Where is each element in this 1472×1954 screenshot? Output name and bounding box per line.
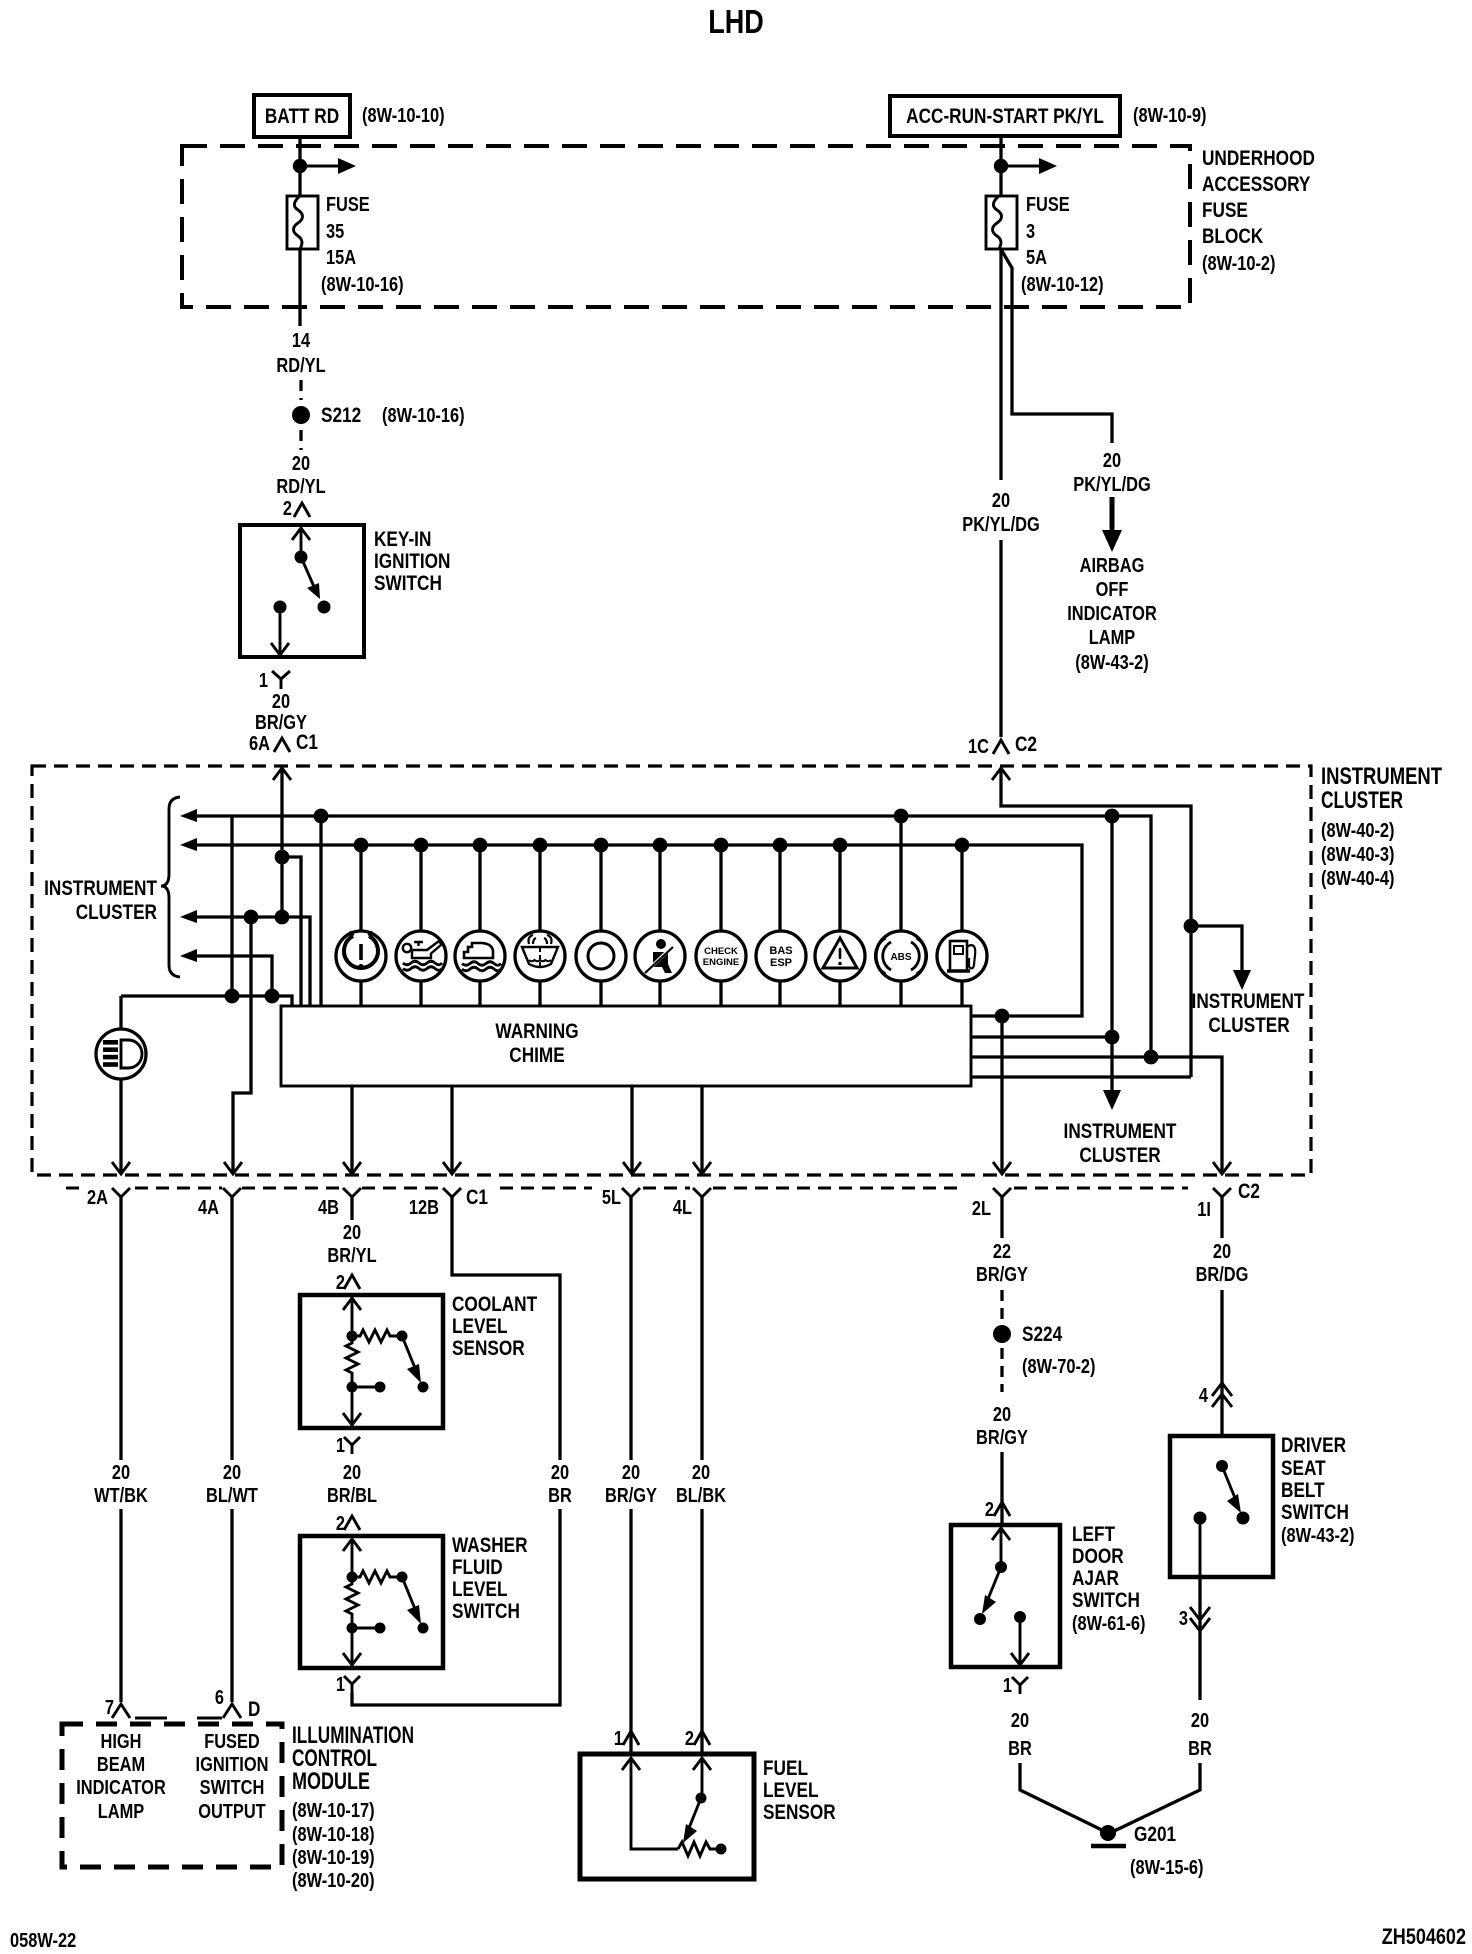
svg-text:BATT RD: BATT RD <box>265 105 339 128</box>
svg-text:CHIME: CHIME <box>509 1044 565 1067</box>
svg-text:INDICATOR: INDICATOR <box>1067 603 1157 625</box>
svg-text:FUEL: FUEL <box>763 1757 808 1780</box>
svg-text:5L: 5L <box>602 1187 621 1209</box>
label G201 (8W-15-6) <box>1130 1823 1204 1879</box>
svg-text:UNDERHOOD: UNDERHOOD <box>1202 147 1315 170</box>
ground G201 <box>1091 1825 1126 1846</box>
svg-text:FUSE: FUSE <box>326 194 370 216</box>
coolant sensor internals <box>343 1298 429 1425</box>
svg-text:SWITCH: SWITCH <box>1281 1501 1349 1524</box>
svg-text:1I: 1I <box>1197 1199 1211 1221</box>
label AIRBAG OFF INDICATOR LAMP (8W-43-2) <box>1067 555 1157 674</box>
block: underhood accessory fuse block (dashed) <box>182 146 1190 307</box>
label INSTRUMENT CLUSTER (mid right) <box>1192 990 1305 1037</box>
wire washer pin1 to 12B C1 <box>352 1509 560 1705</box>
connector 2A <box>87 1187 130 1209</box>
svg-text:BR/BL: BR/BL <box>327 1485 377 1507</box>
svg-text:5A: 5A <box>1026 247 1047 269</box>
connector C1 arrow into cluster <box>273 768 291 780</box>
connector pin 7 at ICM <box>105 1697 130 1719</box>
wire 4L lead <box>700 1197 703 1460</box>
label 20 RD/YL <box>276 453 325 498</box>
wire chime bottom stem 4B <box>350 1086 353 1172</box>
svg-text:INSTRUMENT: INSTRUMENT <box>1192 990 1305 1013</box>
svg-text:LEFT: LEFT <box>1072 1523 1115 1546</box>
svg-text:BR/GY: BR/GY <box>976 1427 1028 1449</box>
svg-text:2: 2 <box>985 1499 994 1521</box>
indicator lamp BAS ESP <box>756 838 806 1006</box>
label HIGH BEAM INDICATOR LAMP <box>76 1731 166 1823</box>
svg-text:SEAT: SEAT <box>1281 1457 1326 1480</box>
label INSTRUMENT CLUSTER (bottom) <box>1064 1120 1177 1167</box>
svg-text:20: 20 <box>223 1462 241 1484</box>
wire 2A lead lower <box>119 1509 122 1702</box>
svg-text:4B: 4B <box>318 1197 339 1219</box>
svg-text:6A: 6A <box>249 733 270 755</box>
svg-text:MODULE: MODULE <box>292 1768 370 1795</box>
svg-text:(8W-10-9): (8W-10-9) <box>1133 105 1207 127</box>
label LEFT DOOR AJAR SWITCH (8W-61-6) <box>1072 1523 1146 1635</box>
svg-text:2: 2 <box>336 1272 345 1294</box>
wire headlamp top stem <box>119 996 122 1030</box>
connector row dashes at cluster bottom <box>66 1187 1188 1190</box>
fuse F3 <box>986 196 1017 249</box>
label 14 RD/YL <box>276 330 325 377</box>
svg-text:(8W-10-10): (8W-10-10) <box>362 105 445 127</box>
svg-text:(8W-10-18): (8W-10-18) <box>292 1824 375 1846</box>
indicator lamp seat belt <box>635 838 685 1006</box>
svg-text:AJAR: AJAR <box>1072 1567 1119 1590</box>
node junction at fuse 3 top <box>994 159 1008 173</box>
wire 5L lower lead <box>629 1509 632 1754</box>
svg-text:D: D <box>248 1698 260 1721</box>
label INSTRUMENT CLUSTER left <box>44 877 157 924</box>
svg-text:20: 20 <box>993 1404 1011 1426</box>
connector 4B <box>318 1188 361 1219</box>
wire S224 to door ajar switch <box>1000 1452 1003 1525</box>
connector 1C C2 <box>968 733 1037 758</box>
box warning chime <box>281 1006 971 1086</box>
label 22 BR/GY (2L) <box>976 1241 1028 1286</box>
svg-text:COOLANT: COOLANT <box>452 1293 537 1316</box>
connector 3 inline (double chevron) <box>1179 1607 1210 1631</box>
svg-text:20: 20 <box>272 691 290 713</box>
arrow 4B at cluster border <box>343 1162 361 1174</box>
wire C2 acc feed to chime <box>1001 768 1191 1077</box>
connector pin 2 fuel sensor <box>685 1728 710 1750</box>
arrow 2A at cluster border <box>112 1162 130 1174</box>
svg-text:CLUSTER: CLUSTER <box>1321 787 1403 814</box>
svg-text:(8W-61-6): (8W-61-6) <box>1072 1613 1146 1635</box>
svg-text:RD/YL: RD/YL <box>276 476 325 498</box>
label 20 BR/BL <box>327 1462 377 1507</box>
svg-text:12B: 12B <box>409 1197 439 1219</box>
svg-text:C2: C2 <box>1238 1180 1260 1203</box>
indicator lamp fuel <box>937 838 987 1006</box>
connector 2L <box>972 1188 1011 1220</box>
svg-text:2: 2 <box>336 1513 345 1535</box>
connector row dashes at ICM <box>135 1717 222 1720</box>
node lamp bus x272 <box>265 989 280 1004</box>
arrow 12B at cluster border <box>443 1162 461 1174</box>
svg-text:(8W-15-6): (8W-15-6) <box>1130 1857 1204 1879</box>
label FUSE 3 5A (8W-10-12) <box>1021 194 1104 296</box>
connector 4A <box>198 1188 241 1219</box>
svg-text:G201: G201 <box>1134 1823 1176 1846</box>
svg-text:CLUSTER: CLUSTER <box>1079 1144 1160 1167</box>
svg-text:DRIVER: DRIVER <box>1281 1434 1346 1457</box>
switch: key-in ignition switch box <box>240 525 364 657</box>
svg-text:(8W-70-2): (8W-70-2) <box>1022 1356 1096 1378</box>
wire 4A lead <box>230 1197 233 1460</box>
svg-text:SWITCH: SWITCH <box>452 1600 520 1623</box>
svg-text:ACC-RUN-START PK/YL: ACC-RUN-START PK/YL <box>906 105 1104 128</box>
connector pin 2 coolant sensor <box>336 1272 360 1294</box>
svg-text:PK/YL/DG: PK/YL/DG <box>962 514 1040 536</box>
wire acc main down to cluster C2 <box>999 540 1002 737</box>
door ajar switch internals <box>974 1528 1029 1665</box>
wire ACC feed to fuse 3 <box>999 136 1002 196</box>
label 20 BR/YL <box>327 1222 376 1267</box>
svg-text:(8W-40-2): (8W-40-2) <box>1321 820 1395 842</box>
svg-text:FLUID: FLUID <box>452 1556 503 1579</box>
connector pin 2 washer switch <box>336 1513 360 1535</box>
label FUEL LEVEL SENSOR <box>763 1757 836 1824</box>
wire C1 feed inside cluster <box>280 768 283 917</box>
label 20 BR/GY <box>255 691 307 734</box>
label KEY-IN IGNITION SWITCH <box>374 528 451 595</box>
indicator lamp tire pressure <box>336 838 386 1006</box>
svg-text:PK/YL/DG: PK/YL/DG <box>1073 474 1151 496</box>
svg-text:4: 4 <box>1199 1385 1209 1407</box>
svg-text:LEVEL: LEVEL <box>452 1578 508 1601</box>
indicator lamp ABS <box>875 809 926 1006</box>
wire line3 branch down to 4A with jog <box>233 917 251 1172</box>
label FUSED IGNITION SWITCH OUTPUT <box>196 1731 269 1823</box>
label 20 BR/GY (5L) <box>605 1462 657 1507</box>
connector pin 1 door ajar switch <box>1003 1675 1028 1697</box>
wire chime bottom stem 4L <box>700 1086 703 1172</box>
node BATT RD feed box <box>254 95 350 137</box>
label 20 PK/YL/DG (main acc wire) <box>962 490 1040 536</box>
switch: washer fluid level switch box <box>300 1536 443 1668</box>
svg-text:15A: 15A <box>326 247 356 269</box>
connector pin 1 coolant sensor <box>336 1435 360 1457</box>
svg-text:058W-22: 058W-22 <box>10 1930 76 1952</box>
svg-text:2A: 2A <box>87 1187 108 1209</box>
wire chime bottom stem 12B <box>450 1086 453 1172</box>
svg-text:BR/GY: BR/GY <box>605 1485 657 1507</box>
svg-text:(8W-10-19): (8W-10-19) <box>292 1847 375 1869</box>
node junction at fuse 35 top <box>293 159 307 173</box>
svg-text:20: 20 <box>1213 1241 1231 1263</box>
wire chime output 1 node <box>995 1009 1010 1024</box>
indicator lamp warning triangle <box>815 838 865 1006</box>
svg-text:FUSE: FUSE <box>1202 199 1248 222</box>
connector pin 2 door ajar switch <box>985 1499 1010 1521</box>
svg-text:20: 20 <box>1011 1710 1029 1732</box>
wire branch from fuse 3 to airbag lamp <box>1002 251 1112 443</box>
svg-text:KEY-IN: KEY-IN <box>374 528 431 551</box>
wire 1I to seat belt switch <box>1220 1290 1223 1436</box>
svg-text:6: 6 <box>215 1687 224 1709</box>
svg-text:2: 2 <box>283 498 292 520</box>
wire chime bottom stem 5L <box>630 1086 633 1172</box>
connector pin 6 D at ICM <box>215 1687 261 1721</box>
svg-text:(8W-10-20): (8W-10-20) <box>292 1870 375 1892</box>
svg-text:20: 20 <box>343 1222 361 1244</box>
svg-text:22: 22 <box>993 1241 1011 1263</box>
node C1 feed on line 3 <box>275 910 290 925</box>
wire chime output 2 <box>971 1035 1112 1038</box>
connector 4L <box>673 1188 711 1219</box>
wire 12B lead to BR jog <box>452 1197 560 1460</box>
svg-text:OUTPUT: OUTPUT <box>198 1801 265 1823</box>
svg-text:RD/YL: RD/YL <box>276 355 325 377</box>
sensor: fuel level sensor box <box>580 1754 754 1879</box>
seat belt switch internals <box>1194 1460 1250 1577</box>
arrow 2L at cluster border <box>993 1162 1011 1174</box>
wire 4B lead <box>350 1197 353 1220</box>
label UNDERHOOD ACCESSORY FUSE BLOCK (8W-10-2) <box>1202 147 1315 275</box>
wire branch arrow to instrument cluster (internal) <box>1191 926 1251 990</box>
node line1 branch to chime <box>314 809 329 824</box>
node output2 junction <box>1105 1030 1120 1045</box>
switch: driver seat belt switch box <box>1170 1436 1273 1577</box>
label S212 (8W-10-16) <box>321 404 465 427</box>
wire BATT RD to fuse 35 <box>298 137 301 196</box>
svg-text:LAMP: LAMP <box>1089 627 1136 649</box>
indicator lamp low coolant <box>455 838 505 1006</box>
svg-text:WT/BK: WT/BK <box>94 1485 148 1507</box>
pin 1 connector below key-in switch <box>259 670 290 692</box>
wire bus line 2 with left arrow <box>180 838 1082 1016</box>
svg-text:C2: C2 <box>1015 733 1037 756</box>
svg-text:20: 20 <box>551 1462 569 1484</box>
svg-text:(8W-10-12): (8W-10-12) <box>1021 274 1104 296</box>
wire line1 branch down to chime <box>319 816 322 1006</box>
svg-text:20: 20 <box>622 1462 640 1484</box>
indicator lamp oil pressure <box>396 838 446 1006</box>
label WASHER FLUID LEVEL SWITCH <box>452 1534 528 1623</box>
indicator lamp brake ring <box>576 838 626 1006</box>
svg-text:4A: 4A <box>198 1197 219 1219</box>
label 20 BR/DG (1I) <box>1196 1241 1249 1286</box>
svg-text:CHECK: CHECK <box>704 946 738 957</box>
splice S224 <box>993 1325 1011 1343</box>
svg-text:BR/DG: BR/DG <box>1196 1264 1249 1286</box>
label 20 PK/YL/DG (airbag branch) <box>1073 450 1151 496</box>
svg-text:ESP: ESP <box>770 957 792 969</box>
wire chime output 4 <box>971 1075 1191 1078</box>
label 20 BL/WT <box>206 1462 258 1507</box>
svg-text:14: 14 <box>292 330 311 352</box>
connector C2 arrow into cluster <box>992 768 1010 780</box>
wire 4A lead lower <box>230 1509 233 1702</box>
svg-text:20: 20 <box>343 1462 361 1484</box>
svg-text:CLUSTER: CLUSTER <box>1208 1014 1289 1037</box>
svg-text:INSTRUMENT: INSTRUMENT <box>44 877 157 900</box>
svg-text:BR/YL: BR/YL <box>327 1245 376 1267</box>
svg-text:2L: 2L <box>972 1198 991 1220</box>
svg-text:SENSOR: SENSOR <box>452 1337 525 1360</box>
svg-text:C1: C1 <box>466 1186 488 1209</box>
wire fuse 3 down (main) <box>999 249 1002 480</box>
svg-text:1C: 1C <box>968 736 989 758</box>
fuel sensor internals <box>622 1758 727 1856</box>
wire branch arrow right from fuse 3 top <box>1001 158 1057 174</box>
svg-text:INSTRUMENT: INSTRUMENT <box>1321 763 1442 790</box>
svg-text:OFF: OFF <box>1096 579 1129 601</box>
wire headlamp bus horizontal <box>121 996 292 1006</box>
svg-text:WARNING: WARNING <box>495 1020 578 1043</box>
label COOLANT LEVEL SENSOR <box>452 1293 537 1360</box>
svg-text:FUSED: FUSED <box>204 1731 260 1753</box>
svg-text:BR/GY: BR/GY <box>976 1264 1028 1286</box>
washer switch internals <box>343 1539 429 1665</box>
svg-text:BLOCK: BLOCK <box>1202 225 1263 248</box>
svg-text:INSTRUMENT: INSTRUMENT <box>1064 1120 1177 1143</box>
connector 1I C2 <box>1197 1180 1260 1221</box>
arrow 5L at cluster border <box>623 1162 641 1174</box>
svg-text:(8W-10-2): (8W-10-2) <box>1202 253 1276 275</box>
svg-text:DOOR: DOOR <box>1072 1545 1124 1568</box>
svg-text:ENGINE: ENGINE <box>703 957 739 968</box>
svg-text:LAMP: LAMP <box>98 1801 145 1823</box>
switch: left door ajar switch box <box>951 1525 1060 1667</box>
wire dashed from S224 <box>1000 1348 1003 1392</box>
svg-text:3: 3 <box>1179 1608 1188 1630</box>
svg-text:BL/WT: BL/WT <box>206 1485 258 1507</box>
wire seat belt switch down <box>1198 1577 1201 1700</box>
wire dashed into S212 <box>299 380 302 400</box>
svg-text:ACCESSORY: ACCESSORY <box>1202 173 1310 196</box>
indicator lamp washer fluid <box>515 838 565 1006</box>
svg-text:BAS: BAS <box>769 945 792 957</box>
svg-text:LEVEL: LEVEL <box>452 1315 508 1338</box>
svg-text:20: 20 <box>692 1462 710 1484</box>
fuse F35 <box>287 196 318 249</box>
brace instrument cluster left <box>161 797 180 977</box>
svg-text:3: 3 <box>1026 221 1035 243</box>
node C1 feed branch <box>275 850 290 865</box>
label 20 BL/BK (4L) <box>676 1462 727 1507</box>
svg-text:HIGH: HIGH <box>101 1731 142 1753</box>
label INSTRUMENT CLUSTER (8W-40-2/3/4) right side <box>1321 763 1442 890</box>
svg-text:(8W-10-16): (8W-10-16) <box>321 274 404 296</box>
svg-text:BELT: BELT <box>1281 1479 1325 1502</box>
wire bus line 3 with left arrow <box>180 910 310 1006</box>
label 20 BR (12B wire) <box>548 1462 572 1507</box>
svg-text:S224: S224 <box>1022 1323 1062 1346</box>
svg-text:1: 1 <box>614 1728 623 1750</box>
svg-text:IGNITION: IGNITION <box>374 550 451 573</box>
node ACC-RUN-START PK/YL feed box <box>890 96 1120 136</box>
label 20 BR (ajar) <box>1008 1710 1032 1760</box>
svg-text:20: 20 <box>112 1462 130 1484</box>
svg-text:20: 20 <box>992 490 1010 512</box>
splice S212 <box>292 406 310 424</box>
wire 4L lower lead <box>700 1509 703 1754</box>
svg-text:(8W-40-3): (8W-40-3) <box>1321 844 1395 866</box>
wire arrow to airbag off indicator lamp <box>1102 497 1122 552</box>
block: instrument cluster (dashed) <box>32 766 1311 1175</box>
svg-text:BR: BR <box>1188 1738 1212 1760</box>
svg-text:(8W-43-2): (8W-43-2) <box>1281 1525 1355 1547</box>
svg-text:(8W-10-17): (8W-10-17) <box>292 1800 375 1822</box>
svg-text:ZH504602: ZH504602 <box>1382 1924 1466 1949</box>
svg-text:2: 2 <box>685 1728 694 1750</box>
connector 5L <box>602 1187 640 1209</box>
svg-text:1: 1 <box>259 670 268 692</box>
svg-text:SENSOR: SENSOR <box>763 1801 836 1824</box>
svg-text:SWITCH: SWITCH <box>200 1777 265 1799</box>
wire dashed into S224 <box>1000 1290 1003 1320</box>
svg-text:LHD: LHD <box>708 3 764 40</box>
module: illumination control module (dashed box) <box>62 1724 282 1867</box>
switch internals key-in <box>271 528 331 655</box>
lamp: high beam indicator symbol <box>96 1029 146 1079</box>
node acc feed branch <box>1184 919 1199 934</box>
arrow 4A at cluster border <box>224 1162 242 1174</box>
wire branch arrow right from fuse 35 top <box>300 158 356 174</box>
svg-text:35: 35 <box>326 221 344 243</box>
svg-text:AIRBAG: AIRBAG <box>1080 555 1145 577</box>
wire 2L lead <box>1000 1197 1003 1238</box>
wire chime output1 down to 2L <box>1000 1016 1003 1172</box>
svg-text:LEVEL: LEVEL <box>763 1779 819 1802</box>
label ILLUMINATION CONTROL MODULE refs <box>292 1722 414 1892</box>
label 20 WT/BK <box>94 1462 148 1507</box>
wire 2A lead <box>119 1197 122 1460</box>
pin 2 connector at key-in switch <box>283 498 310 520</box>
svg-text:(8W-40-4): (8W-40-4) <box>1321 868 1395 890</box>
wire vertical line1 to lamp bus <box>230 816 233 996</box>
svg-text:BR: BR <box>1008 1738 1032 1760</box>
connector 4 inline (double chevron) <box>1199 1383 1232 1407</box>
svg-text:SWITCH: SWITCH <box>374 572 442 595</box>
indicator lamp check engine <box>696 838 746 1006</box>
svg-text:IGNITION: IGNITION <box>196 1754 269 1776</box>
connector 6A C1 <box>249 731 318 755</box>
svg-text:20: 20 <box>1191 1710 1209 1732</box>
connector pin 1 fuel sensor <box>614 1728 639 1750</box>
node line3 branch <box>244 910 259 925</box>
wire bus line 4 with left arrow <box>180 949 272 996</box>
arrow 1I at cluster border <box>1213 1162 1231 1174</box>
svg-text:INDICATOR: INDICATOR <box>76 1777 166 1799</box>
svg-text:FUSE: FUSE <box>1026 194 1070 216</box>
wire chime output 3 to 1I <box>971 1057 1222 1172</box>
wire headlamp bottom stem to 2A <box>119 1079 122 1172</box>
svg-text:(8W-10-16): (8W-10-16) <box>382 405 465 427</box>
label WARNING CHIME <box>495 1020 578 1067</box>
svg-text:20: 20 <box>292 453 310 475</box>
wire 1I lead <box>1220 1197 1223 1238</box>
wire fuse 35 to splice S212 <box>298 249 301 326</box>
label 20 BR (belt) <box>1188 1710 1212 1760</box>
wire seat belt to G201 <box>1110 1763 1200 1833</box>
svg-text:BL/BK: BL/BK <box>676 1485 727 1507</box>
svg-text:S212: S212 <box>321 404 361 427</box>
label DRIVER SEAT BELT SWITCH (8W-43-2) <box>1281 1434 1355 1547</box>
connector 12B C1 <box>409 1186 488 1219</box>
label FUSE 35 15A (8W-10-16) <box>321 194 404 296</box>
wire vertical x1112 with arrow to label <box>1103 816 1121 1110</box>
svg-text:20: 20 <box>1103 450 1121 472</box>
label 20 BR/GY (S224 out) <box>976 1404 1028 1449</box>
svg-text:BEAM: BEAM <box>97 1754 145 1776</box>
